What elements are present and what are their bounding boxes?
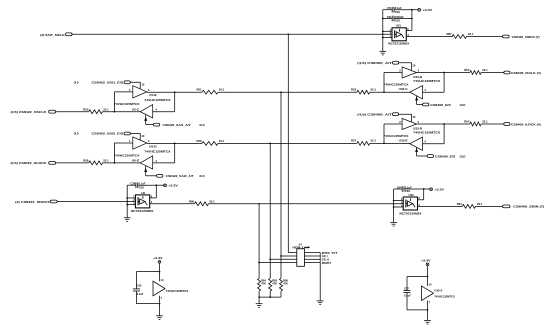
node (2,6) CS8422_OLRCK net label <box>11 161 48 165</box>
svg-text:CS8406_SDIN (7): CS8406_SDIN (7) <box>513 205 544 209</box>
wire U8 output to U32 input (SDOUT buffered) <box>150 203 195 205</box>
node OLD label (SAI1 A/T) <box>199 123 204 127</box>
wire +3.3V to U33 VCC pin <box>427 266 429 286</box>
node CS8422_SAI1_E/S net label <box>92 81 124 85</box>
power +3.3V (U5 supply) <box>153 256 163 263</box>
svg-text:MDVDT: MDVDT <box>322 261 332 265</box>
junction C64/VCC rail (U32) <box>423 188 425 190</box>
op-amp U5-A power triangle <box>153 281 165 296</box>
pin 5 of U8 <box>151 194 153 198</box>
resistor R53 22.1 <box>464 68 488 74</box>
node OLD label (SAI2 E/S) <box>74 132 79 136</box>
value 74VHC125MTCX (U33 pwr) <box>434 294 455 298</box>
svg-text:(4,6) CS8406_A/T: (4,6) CS8406_A/T <box>357 112 392 116</box>
junction node B on output <box>174 143 176 145</box>
svg-text:10: 10 <box>141 83 144 87</box>
node CS8406_E/S net label (U33-E) <box>435 154 456 158</box>
value 74VHC125MTCX (U33-C) <box>383 83 408 87</box>
wire C35 bottom branch <box>136 291 159 303</box>
junction U32 input pin <box>393 203 395 205</box>
designator U32 label <box>409 193 415 197</box>
wire enable to U33-B <box>399 63 412 71</box>
op-amp U32 buffer NC7SZ125 body <box>403 197 417 210</box>
pin 14 of U5 <box>161 278 164 282</box>
svg-text:U5-C: U5-C <box>132 107 139 111</box>
node CS8406_ISCLK (4) net label <box>511 71 541 75</box>
value NC7SZ125M5X (U31) <box>388 41 409 45</box>
wire input to resistor R58 <box>56 162 89 164</box>
wire enable to buffer U5-B <box>131 82 141 89</box>
wire U33-E enable down <box>416 147 428 156</box>
designator U5-E label <box>132 159 140 163</box>
svg-text:(2,6) CS8422_OSCLK: (2,6) CS8422_OSCLK <box>11 110 48 114</box>
svg-text:C0G: C0G <box>405 189 410 193</box>
wire U33-E input tick <box>423 143 445 145</box>
pin 4 of U31 <box>407 33 409 37</box>
wire C35 top branch <box>136 271 160 289</box>
value NC7SZ125M5X (U32) <box>400 212 422 216</box>
wire U33 GND pin down <box>427 301 429 321</box>
connector CS8422_SAI1_E/S flag <box>124 81 130 84</box>
svg-text:+3.3V: +3.3V <box>421 259 431 263</box>
svg-text:OLD: OLD <box>74 81 79 85</box>
pin 3 of U31 <box>390 34 392 38</box>
svg-text:(2) CS8422_SDOUT: (2) CS8422_SDOUT <box>15 200 50 204</box>
wire U5-C enable down <box>145 115 154 125</box>
wire resistor to lower buffer output node <box>103 162 141 164</box>
resistor R56 22.1 <box>196 139 224 146</box>
ground under U31 <box>379 51 386 55</box>
svg-text:+3.3V: +3.3V <box>434 187 444 191</box>
wire R56 to R57 (crosses bus) <box>218 142 357 144</box>
svg-text:22.1: 22.1 <box>103 159 109 163</box>
junction C57 return (U33) <box>427 309 429 311</box>
svg-text:OLD: OLD <box>74 132 79 136</box>
svg-text:R87: R87 <box>446 32 452 36</box>
svg-text:CS8406_E/S: CS8406_E/S <box>435 154 456 158</box>
svg-text:U5-D: U5-D <box>149 144 156 148</box>
pin 2 of U32 <box>401 200 403 204</box>
power +3.3V (U31) <box>418 8 432 12</box>
wire bus V2 vertical (SCLK net to header/pulldown) <box>280 91 297 278</box>
junction output loop node (U33-B) <box>443 72 445 74</box>
junction output loop node (U33-D) <box>443 123 445 125</box>
svg-text:C0G: C0G <box>139 185 144 189</box>
op-amp U33-A power triangle <box>422 286 434 301</box>
svg-text:47K: 47K <box>261 282 266 286</box>
wire input to resistor R55 <box>56 111 89 113</box>
svg-text:C0G: C0G <box>395 19 400 23</box>
wire R87 to CS8406_OMCK connector <box>467 36 503 38</box>
node SAIT_MCLK net label <box>40 33 65 37</box>
junction U8 gnd pin <box>126 204 128 206</box>
svg-text:74VHC125MTCX: 74VHC125MTCX <box>383 134 408 138</box>
wire U31 gnd tick <box>383 37 392 39</box>
wire U31 VCC rail <box>406 10 412 31</box>
pin 14 of U33 <box>429 283 432 287</box>
wire C57 top branch <box>407 276 428 290</box>
svg-text:U5-E: U5-E <box>132 159 140 163</box>
wire U33-C input tick <box>423 91 445 93</box>
wire node B vertical loop <box>174 143 176 163</box>
svg-text:14: 14 <box>161 278 164 282</box>
value NC7SZ125M5X (U8) <box>131 209 153 213</box>
junction U32 gnd pin <box>393 206 395 208</box>
wire R61 to CS8406_SDIN connector <box>476 205 503 207</box>
svg-text:1000pF: 1000pF <box>395 15 404 19</box>
wire U8 OE tick <box>127 197 135 199</box>
svg-text:U33-A: U33-A <box>434 288 442 292</box>
resistor R84 47K pulldown <box>258 278 267 297</box>
svg-text:47K: 47K <box>272 282 277 286</box>
resistor R55 22.1 <box>83 107 109 113</box>
svg-text:22.1: 22.1 <box>103 107 109 111</box>
svg-text:22.1: 22.1 <box>482 68 488 72</box>
resistor R61 22.1 <box>457 202 483 208</box>
resistor R52 22.1 <box>351 87 376 94</box>
pin 4 of U33-E <box>424 140 426 144</box>
wire U32 gnd tick <box>394 206 404 208</box>
svg-text:74VHC125MTCX: 74VHC125MTCX <box>413 130 440 134</box>
wire bus V4 vertical (SDOUT net to header/pulldown) <box>258 203 297 278</box>
pin 3 of U5-D <box>148 139 150 143</box>
resistor R54 22.1 <box>464 120 488 126</box>
node CS8422_SAI1_A/T net label <box>163 123 191 127</box>
pin 4 of U8 <box>151 200 153 204</box>
ground under U5 power <box>156 316 163 320</box>
svg-text:C57: C57 <box>404 286 409 290</box>
svg-text:(2) SAIT_MCLK: (2) SAIT_MCLK <box>40 33 65 37</box>
pin 2 of U33-B <box>399 69 401 73</box>
svg-text:OLD: OLD <box>199 174 204 178</box>
resistor R85 47K pulldown <box>269 278 278 297</box>
wire U5-D input from node A <box>114 143 132 163</box>
svg-text:NC7SZ125M5X: NC7SZ125M5X <box>131 209 153 213</box>
node CS8422_SAI2_A/T net label <box>166 174 194 178</box>
connector CS8422_OLRCK input flag <box>49 162 56 165</box>
connector SAIT_MCLK (input flag) <box>66 33 73 36</box>
designator U31 label <box>396 24 402 28</box>
svg-text:CS8422_SAI2_A/T: CS8422_SAI2_A/T <box>166 174 194 178</box>
svg-text:22.1: 22.1 <box>477 202 483 206</box>
power +3.3V (U32) <box>430 187 444 191</box>
pin 3 of U5-B <box>148 88 150 92</box>
svg-text:NC7SZ125M5X: NC7SZ125M5X <box>400 212 422 216</box>
svg-text:R52: R52 <box>351 87 357 91</box>
value 74VHC125MTCX (U5-D) <box>144 149 170 153</box>
pin 4 of U32 <box>419 203 421 207</box>
svg-text:U31: U31 <box>396 24 402 28</box>
svg-text:74VHC125MTCX: 74VHC125MTCX <box>166 289 189 293</box>
wire to +3.3V (U8) <box>156 184 163 186</box>
connector CS8406_ISCLK (4) output flag <box>504 71 510 74</box>
op-amp U31 buffer NC7SZ125 body <box>392 28 406 41</box>
pin 4 of U33-C <box>424 88 426 92</box>
node (4,6) CS8406_A/T net label (U33-B) <box>357 61 392 65</box>
svg-text:U33-E: U33-E <box>399 138 408 142</box>
power +3.3V (U33 supply) <box>421 259 431 266</box>
op-amp U8 buffer NC7SZ125 body <box>135 195 149 208</box>
connector CS8406_E/S flag (U33-E) <box>427 155 433 158</box>
junction U8 OE pin <box>126 197 128 199</box>
pin 10 of U5-D <box>141 134 144 138</box>
resistor R57 22.1 <box>351 139 376 146</box>
wire U5-B output to R51 <box>147 91 202 93</box>
svg-text:+3.3V: +3.3V <box>153 256 163 260</box>
pin 1 of U31 <box>390 28 392 32</box>
node OLD label (U33-C) <box>460 103 466 107</box>
wire enable to buffer U5-D <box>131 134 141 141</box>
wire R60 to U32 (crosses bus) <box>209 203 404 205</box>
svg-text:10: 10 <box>412 115 415 119</box>
power +3.3V (U8) <box>164 184 178 188</box>
svg-text:C0G: C0G <box>395 10 400 14</box>
node (4,6) CS8406_A/T net label (U33-D) <box>357 112 392 116</box>
wire U8 VCC rail <box>150 185 157 198</box>
svg-text:10: 10 <box>412 64 415 68</box>
wire SAIT_MCLK horizontal to U31 input <box>72 33 392 35</box>
wire output loop vertical <box>443 73 445 93</box>
wire U8 gnd tick <box>127 204 135 206</box>
value 74VHC125MTCX (U5-E) <box>114 153 139 157</box>
svg-text:R56: R56 <box>196 139 202 143</box>
designator U5-D label <box>149 144 156 148</box>
svg-text:R53: R53 <box>464 68 470 72</box>
node J4 pin net labels <box>322 251 338 265</box>
resistor R86 47K pulldown <box>279 278 288 297</box>
wire R51 to R52 (crosses bus) <box>218 91 357 93</box>
wire U8 gnd rail <box>126 185 128 218</box>
node OLD label (U33-E) <box>460 154 466 158</box>
pin 1 of U32 <box>401 197 403 201</box>
value 74VHC125MTCX (U5-C) <box>114 102 139 106</box>
designator U8 label <box>141 191 145 195</box>
svg-text:74VHC125MTCX: 74VHC125MTCX <box>114 102 139 106</box>
value 74VHC125MTCX (U33-E) <box>383 134 408 138</box>
wire U5 GND pin down <box>159 296 161 316</box>
wire R57 to right pair node <box>370 143 410 145</box>
svg-text:74VHC125MTCX: 74VHC125MTCX <box>434 294 455 298</box>
wire U33-B input from left node <box>384 73 402 93</box>
svg-text:0.1uF: 0.1uF <box>404 294 411 298</box>
wire J4 right pins to ground rail <box>305 253 321 301</box>
svg-text:OLD: OLD <box>199 123 204 127</box>
value 74VHC125MTCX (U5-B) <box>144 98 170 102</box>
svg-text:C61: C61 <box>387 15 392 19</box>
svg-text:R54: R54 <box>464 120 470 124</box>
svg-text:22.1: 22.1 <box>219 139 225 143</box>
connector J4 HDR-1X4 <box>292 242 309 266</box>
wire U33-C enable down <box>416 96 423 105</box>
svg-text:C35: C35 <box>137 284 142 288</box>
svg-text:10: 10 <box>141 134 144 138</box>
wire output loop vertical <box>443 124 445 144</box>
svg-text:CS8406_OMCK (7): CS8406_OMCK (7) <box>512 35 540 39</box>
svg-text:74VHC125MTCX: 74VHC125MTCX <box>383 83 408 87</box>
pin 7 of U33 <box>429 301 431 305</box>
connector CS8422_SDOUT input flag <box>50 200 57 203</box>
svg-text:14: 14 <box>429 283 432 287</box>
pin 5 of U31 <box>407 27 409 31</box>
wire U31 output <box>406 36 452 38</box>
wire bus V1 vertical (MCLK to header J4 pin1) <box>288 34 297 252</box>
connector CS8422_SAI1_A/T flag <box>153 123 159 126</box>
svg-text:22.1: 22.1 <box>468 32 474 36</box>
svg-text:47K: 47K <box>283 282 288 286</box>
ground below pulldowns <box>256 297 263 307</box>
pin 10 of U33-B <box>412 64 415 68</box>
buffer U33-D (74VHC125 gate) <box>402 118 417 129</box>
value 74VHC125MTCX (U5 pwr) <box>166 289 189 293</box>
junction C61 right rail <box>411 18 413 20</box>
buffer U33-C (74VHC125 gate, reverse) <box>410 86 423 99</box>
svg-text:R51: R51 <box>196 88 202 92</box>
wire pulldown common rail <box>258 296 281 298</box>
connector CS8422_OSCLK input flag <box>49 110 56 113</box>
junction U8 input pin <box>126 201 128 203</box>
wire node B vertical loop <box>174 92 176 112</box>
wire bus V3 vertical (LRCK net to header/pulldown) <box>269 143 296 279</box>
ground under U8 <box>124 218 131 222</box>
node CS8406_OMCK net label <box>512 35 540 39</box>
svg-text:22.1: 22.1 <box>482 120 488 124</box>
buffer U33-B (74VHC125 gate) <box>402 67 417 78</box>
svg-text:0.1uF: 0.1uF <box>395 6 402 10</box>
pin 3 of U32 <box>401 204 403 208</box>
svg-text:R61: R61 <box>457 202 463 206</box>
wire U5-D output to R56 <box>147 142 202 144</box>
resistor R60 22.1 <box>189 199 215 205</box>
designator U5-C label <box>132 107 139 111</box>
wire U5-C input tick to node B <box>153 111 175 113</box>
pin 4 of U5-E <box>155 159 157 163</box>
wire U31 OE tick <box>383 30 392 32</box>
capacitor C71 0.1uF <box>383 6 412 14</box>
svg-text:U33-C: U33-C <box>399 87 408 91</box>
designator U33-B label <box>413 75 422 79</box>
node OLD label (SAI2 A/T) <box>199 174 204 178</box>
connector CS8406_A/T flag (U33-D) <box>393 113 399 116</box>
connector CS8406_E/S flag (U33-C) <box>423 103 429 106</box>
wire U32 gnd rail <box>393 189 395 222</box>
junction C38/VCC rail (U8) <box>155 184 157 186</box>
capacitor C38 0.1uF <box>127 182 156 190</box>
junction U31 input pin <box>382 33 384 35</box>
svg-text:CS8422_SAI1_A/T: CS8422_SAI1_A/T <box>163 123 191 127</box>
wire U33-B output <box>417 72 470 74</box>
wire R52 to right pair node <box>370 91 410 93</box>
connector CS8422_SAI2_A/T flag <box>157 174 163 177</box>
wire R54 to output connector <box>481 123 504 125</box>
wire +3.3V to U5 VCC pin <box>159 263 161 281</box>
buffer U5-C (74VHC125 gate, B to A) <box>140 105 153 118</box>
svg-text:CS8422_SAI2_E/S: CS8422_SAI2_E/S <box>92 132 124 136</box>
capacitor C61 1000pF <box>383 15 412 23</box>
pin 10 of U5-B <box>141 83 144 87</box>
value 74VHC125MTCX (U33-D) <box>413 130 440 134</box>
node A junction (input/loop) <box>114 111 116 113</box>
node OLD label (SAI1 E/S) <box>74 81 79 85</box>
svg-text:22.1: 22.1 <box>209 199 215 203</box>
wire U5-B input from node A <box>114 92 132 112</box>
junction C35 return (U5) <box>159 303 161 305</box>
capacitor C57 0.1uF (U33 bypass) <box>404 286 412 297</box>
wire to +3.3V (U31) <box>412 9 418 11</box>
svg-text:CS8406_ILRCK (4): CS8406_ILRCK (4) <box>511 122 541 126</box>
connector CS8406_A/T flag (U33-B) <box>393 61 399 64</box>
pin 1 of U8 <box>133 195 135 199</box>
svg-text:22.1: 22.1 <box>219 88 225 92</box>
buffer U5-E (74VHC125 gate, B to A) <box>140 156 153 169</box>
svg-text:(2,6) CS8422_OLRCK: (2,6) CS8422_OLRCK <box>11 161 48 165</box>
pin 2 of U31 <box>390 31 392 35</box>
wire U31 gnd rail <box>382 10 384 52</box>
wire to +3.3V (U32) <box>424 188 430 190</box>
wire resistor to lower buffer output node <box>103 111 141 113</box>
svg-text:U5-B: U5-B <box>149 93 156 97</box>
buffer U5-B (74VHC125 gate, A to B) <box>133 86 147 98</box>
svg-text:74VHC125MTCX: 74VHC125MTCX <box>144 98 170 102</box>
buffer U33-E (74VHC125 gate, reverse) <box>410 137 423 150</box>
value 74VHC125MTCX (U33-B) <box>413 79 440 83</box>
pin 2 of U33-D <box>399 120 401 124</box>
node (2,6) CS8422_OSCLK net label <box>11 110 48 114</box>
pin 7 of U5 <box>161 296 163 300</box>
junction U31 OE pin <box>382 30 384 32</box>
svg-text:R55: R55 <box>83 107 89 111</box>
pin 4 of U5-C <box>155 108 157 112</box>
resistor R87 22.1 <box>446 32 473 38</box>
pin 5 of U32 <box>419 196 421 200</box>
pin 2 of U8 <box>133 198 135 202</box>
wire U5-E enable down <box>145 166 157 176</box>
node (2) CS8422_SDOUT net label <box>15 200 50 204</box>
svg-text:0.1uF: 0.1uF <box>405 185 412 189</box>
buffer U5-D (74VHC125 gate, A to B) <box>133 137 147 149</box>
capacitor C64 0.1uF <box>394 185 424 193</box>
pin 3 of U8 <box>133 201 135 205</box>
wire C57 bottom branch <box>407 293 428 310</box>
svg-text:(4,6) CS8406_A/T: (4,6) CS8406_A/T <box>357 61 392 65</box>
wire U32 OE tick <box>394 200 404 202</box>
svg-text:OLD: OLD <box>460 103 466 107</box>
pin 5 of U33-D <box>418 120 420 124</box>
resistor R58 22.1 <box>83 159 109 165</box>
ground under U32 <box>390 222 397 226</box>
capacitor C35 0.1uF (U5 bypass) <box>133 284 144 296</box>
pin 10 of U33-D <box>412 115 415 119</box>
designator U33-D label <box>413 127 422 131</box>
node CS8406_SDIN net label <box>513 205 544 209</box>
pin 1 of U5-D <box>129 139 131 143</box>
svg-text:0.1uF: 0.1uF <box>139 182 146 186</box>
svg-text:+3.3V: +3.3V <box>168 184 178 188</box>
junction C61 left rail <box>382 18 384 20</box>
designator U5-B label <box>149 93 156 97</box>
wire enable to U33-D <box>399 114 412 122</box>
svg-text:C71: C71 <box>387 6 392 10</box>
node CS8406_E/S net label (U33-C) <box>430 103 451 107</box>
svg-text:R57: R57 <box>351 139 357 143</box>
junction on SAIT_MCLK at bus V1 <box>287 33 289 35</box>
wire SDOUT to U8 input <box>57 201 135 203</box>
wire R53 to output connector <box>481 72 504 74</box>
ground under U33 power <box>424 320 431 324</box>
node A junction (input/loop) <box>114 162 116 164</box>
svg-text:CS8422_SAI1_E/S: CS8422_SAI1_E/S <box>92 81 124 85</box>
ground at J4 return <box>317 301 324 305</box>
designator U33-C label <box>399 87 408 91</box>
